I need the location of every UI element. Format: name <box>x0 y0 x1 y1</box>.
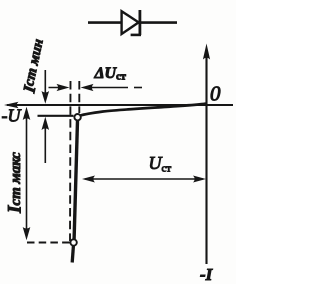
I st min dimension arrow upper <box>42 70 50 104</box>
breakdown knee node (I st min point) <box>74 114 80 120</box>
max current node (I st maks point) <box>70 239 76 245</box>
cathode bar <box>138 10 141 35</box>
delta U st dimension arrow left <box>49 84 70 91</box>
svg-text:Uст: Uст <box>149 153 172 175</box>
I-V curve steep branch <box>74 121 77 240</box>
delta U st dimension arrow right <box>81 84 143 91</box>
svg-text:-U: -U <box>2 106 22 126</box>
I st min dimension arrow lower <box>42 117 50 163</box>
svg-text:ΔUст: ΔUст <box>94 65 127 83</box>
I st maks dimension arrow <box>23 107 31 240</box>
I-V curve shallow branch <box>81 104 207 116</box>
svg-text:-I: -I <box>200 265 214 284</box>
wire left lead <box>88 21 121 24</box>
zener diode symbol VD <box>88 10 177 35</box>
vertical axis -I <box>203 44 210 265</box>
wire right lead <box>140 21 177 24</box>
svg-text:Iст макс: Iст макс <box>5 152 26 214</box>
label I st maks <box>5 152 26 214</box>
svg-text:0: 0 <box>210 82 221 106</box>
dashed vertical line at U(I st maks) <box>69 81 72 241</box>
U st dimension arrow <box>82 176 206 183</box>
dashed vertical line at U(I st min) <box>78 81 80 113</box>
cathode hook <box>131 34 141 37</box>
label I st min <box>19 38 49 96</box>
I st min level line <box>38 115 74 117</box>
curve tail below max point <box>72 246 73 263</box>
dashed level line at I st maks <box>27 242 70 244</box>
horizontal axis -U <box>4 102 233 108</box>
anode triangle <box>122 11 139 34</box>
